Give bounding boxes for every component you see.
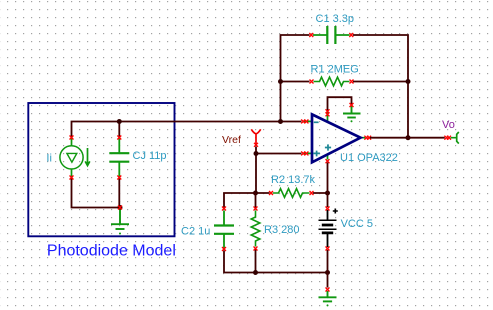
svg-text:C1 3.3p: C1 3.3p <box>316 13 355 25</box>
node R2 left <box>253 191 258 196</box>
svg-text:U1 OPA322: U1 OPA322 <box>340 152 398 164</box>
ground VCC bottom <box>319 288 337 307</box>
ground op-amp top <box>343 103 361 122</box>
node bottom R3 <box>253 270 258 275</box>
node Vref junction <box>254 151 259 156</box>
svg-text:VCC 5: VCC 5 <box>341 218 373 230</box>
wire bottom row <box>256 272 328 274</box>
node CJ top junction <box>117 119 122 124</box>
svg-text:C2 1u: C2 1u <box>181 226 210 238</box>
svg-text:Vo: Vo <box>442 119 455 131</box>
svg-text:R1 2MEG: R1 2MEG <box>311 63 359 75</box>
node bottom VCC <box>325 270 330 275</box>
svg-text:CJ 11p: CJ 11p <box>133 150 167 162</box>
photodiode model box <box>28 103 174 236</box>
capacitor CJ <box>109 136 129 180</box>
terminal Vref <box>251 129 260 153</box>
node right R1 <box>406 79 411 84</box>
battery VCC <box>319 207 338 251</box>
wire to top ground <box>328 97 352 112</box>
wire CJ top stub <box>118 122 120 138</box>
pin marks <box>301 119 308 123</box>
op-amp U1 <box>301 97 371 163</box>
current source Ii <box>60 136 90 180</box>
wire noninverting row <box>256 154 302 194</box>
node R2 right <box>325 191 330 196</box>
node feedback bottom-left <box>278 119 283 124</box>
resistor R2 <box>269 189 314 198</box>
capacitor C2 <box>214 207 234 252</box>
node output <box>406 135 411 140</box>
wire photodiode bottom <box>72 178 121 208</box>
svg-text:R3 280: R3 280 <box>264 224 299 236</box>
wire feedback right vertical <box>353 35 408 138</box>
ground photodiode <box>111 206 129 235</box>
terminal Vo <box>444 132 458 144</box>
wire photodiode top to op-amp inverting input <box>72 122 302 138</box>
resistor R3 <box>251 207 260 251</box>
node photodiode ground junction <box>118 205 123 210</box>
resistor R1 <box>310 77 354 86</box>
svg-text:R2 13.7k: R2 13.7k <box>271 174 316 186</box>
wire C2 branch <box>224 193 256 273</box>
wire feedback left vertical <box>281 35 310 122</box>
svg-text:Photodiode Model: Photodiode Model <box>47 242 176 259</box>
wire output row <box>370 137 445 139</box>
svg-text:Vref: Vref <box>222 134 241 146</box>
capacitor C1 <box>309 26 353 44</box>
wire R3 stubs <box>255 193 257 273</box>
wire supply column <box>327 163 329 288</box>
wire R2 row <box>256 192 328 194</box>
node feedback top-left of R1 <box>278 79 283 84</box>
svg-text:Ii: Ii <box>46 153 52 165</box>
